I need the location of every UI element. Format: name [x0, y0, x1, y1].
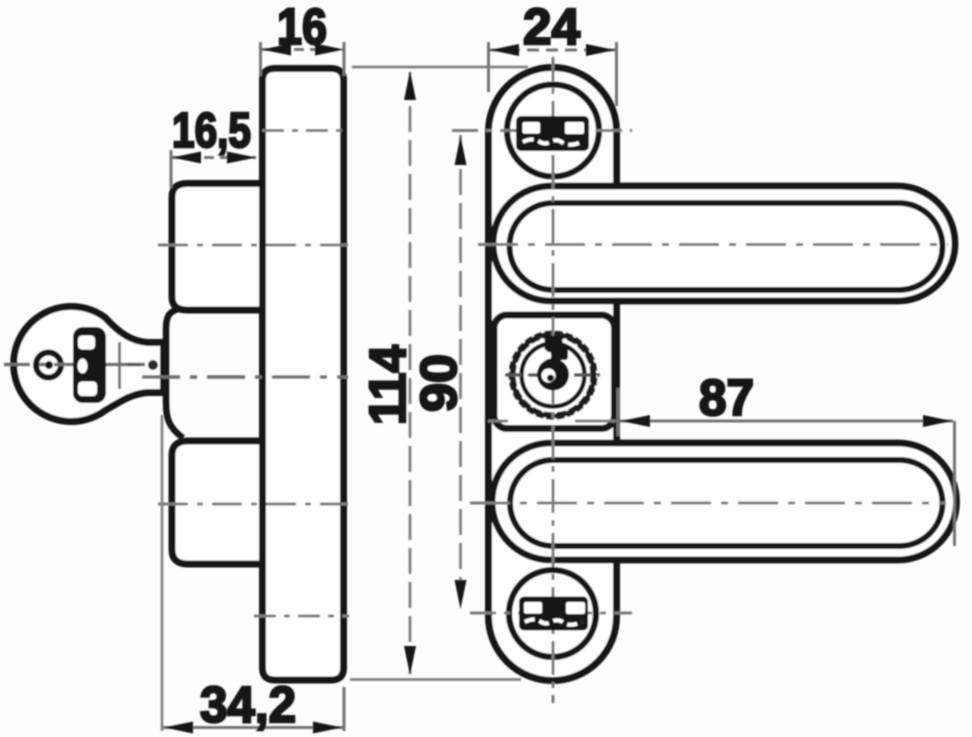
keyhole in cylinder	[545, 336, 563, 351]
key grip pattern	[73, 327, 106, 403]
centerline top arm	[478, 243, 948, 246]
escutcheon face (side view cylinder face)	[166, 308, 183, 438]
key hole center dot	[45, 361, 53, 369]
svg-text:16,5: 16,5	[172, 104, 251, 158]
svg-text:87: 87	[699, 369, 754, 426]
bottom arm inner	[510, 460, 942, 546]
centerline bottom arm	[470, 502, 946, 505]
key hole in bow	[36, 353, 61, 378]
centerline top screw front view	[452, 129, 632, 132]
cylinder crosshair horizontal	[505, 373, 600, 377]
top arm outer	[493, 186, 955, 301]
centerline upper boss row	[158, 244, 348, 247]
centerline top screw row, side view	[262, 129, 349, 132]
svg-text:34,2: 34,2	[200, 676, 296, 733]
centerline cylinder axis side view	[142, 375, 348, 379]
centerline bottom screw row, side view	[254, 615, 349, 618]
svg-text:24: 24	[523, 0, 581, 55]
cylinder knurled ring	[512, 334, 594, 416]
lower boss block (side view)	[172, 441, 266, 564]
upper boss block (side view)	[172, 184, 266, 311]
top arm inner	[510, 203, 943, 290]
centerline lower boss row	[158, 503, 348, 506]
neck groove dashes	[128, 363, 140, 367]
top screw head	[516, 116, 589, 151]
svg-text:90: 90	[410, 354, 467, 412]
cylinder housing block (front view)	[494, 315, 615, 429]
centerline key axis	[4, 363, 150, 367]
key (bow and neck, side view)	[14, 307, 164, 422]
centerline dot at cylinder nub	[148, 360, 158, 370]
top screw circle	[507, 85, 599, 177]
cylinder inner circle	[522, 344, 585, 407]
vertical centerline front view	[552, 57, 555, 703]
svg-text:16: 16	[277, 0, 327, 55]
key blade edge line	[118, 342, 121, 389]
bottom screw circle	[509, 570, 596, 657]
bottom arm outer	[492, 443, 957, 560]
bottom screw head	[519, 597, 588, 631]
centerline bottom screw front view	[470, 612, 632, 615]
back plate (side view)	[263, 69, 344, 681]
face plate (front view, obround)	[489, 68, 617, 681]
svg-text:114: 114	[359, 344, 416, 425]
